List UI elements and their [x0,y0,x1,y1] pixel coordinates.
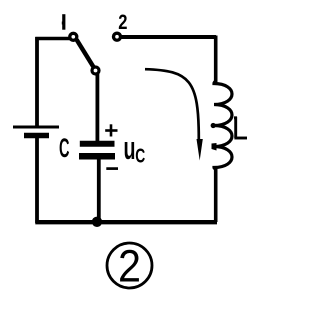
coil cusp ink blob lower [212,143,217,151]
wire left vertical upper [35,37,39,126]
switch arm [77,40,94,68]
current arrow [145,69,203,160]
pin label 1 [62,14,64,30]
switch contact 2 [114,33,121,40]
capacitor C plates [79,144,115,157]
wire middle vertical upper [96,73,100,142]
junction dot [92,217,102,227]
svg-text:C: C [59,133,70,163]
wire left vertical lower [35,138,39,223]
battery [13,127,59,136]
polarity minus [106,167,118,170]
polarity plus [105,124,117,136]
svg-text:u: u [124,130,136,166]
coil cusp ink blob upper [211,123,216,128]
svg-text:2: 2 [118,241,141,292]
svg-text:2: 2 [118,10,127,34]
figure label circled 2 [107,241,152,292]
switch S contact 1 [70,33,77,40]
wire right vertical lower [214,167,218,222]
wire right vertical upper [214,36,218,84]
label L [234,117,247,138]
wire top horizontal to right [121,35,216,39]
inductor L coil [214,81,232,169]
svg-text:C: C [135,145,145,168]
switch pivot [92,67,99,74]
wire bottom [35,220,217,224]
wire top-left horizontal [35,37,70,41]
wire middle vertical lower [97,158,101,221]
